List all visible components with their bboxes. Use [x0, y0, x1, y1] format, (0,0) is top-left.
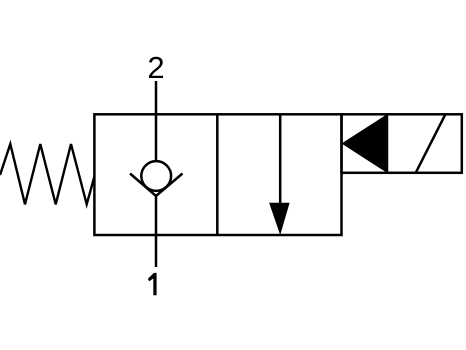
solenoid actuator triangle [342, 114, 388, 173]
position divider [216, 114, 219, 235]
solenoid coil diagonal [416, 115, 446, 173]
port 2 line [155, 81, 158, 161]
svg-text:2: 2 [147, 50, 164, 85]
solenoid divider [386, 114, 389, 173]
flow arrow line [279, 114, 282, 206]
spring (return spring, left) [0, 144, 94, 204]
solenoid box [342, 114, 462, 173]
port 1 line [155, 196, 158, 267]
flow arrow head [269, 203, 290, 235]
valve body box [94, 114, 341, 235]
port label 1 [148, 273, 157, 295]
check valve seat (V) [130, 174, 183, 197]
check valve ball (circle) [141, 161, 171, 191]
